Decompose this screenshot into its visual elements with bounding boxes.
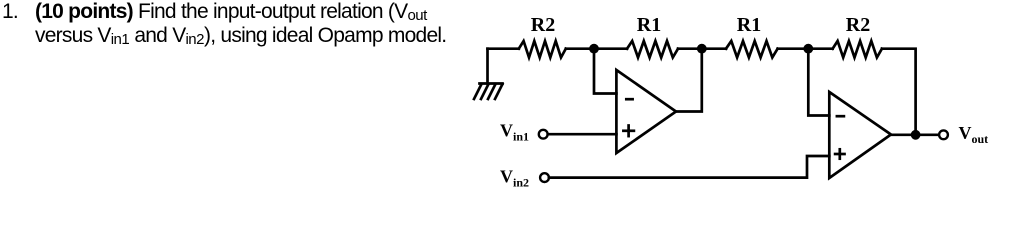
terminal Vin2 [540,173,549,182]
wire R1 to R1, through node B [678,47,726,50]
terminal Vout [939,130,948,139]
wire node C down to op-amp U2 inverting input [808,49,829,116]
op-amp U2 [829,92,891,178]
wire Vin1 to U1 non-inverting input [548,133,617,136]
wire R2 to R1, through node A [566,47,627,50]
wire ground corner to R2 left lead [488,47,519,50]
resistor R2 (left) [519,41,566,58]
svg-text:R1: R1 [737,14,761,36]
node A junction dot [589,44,599,54]
node D output junction dot [911,130,921,140]
svg-text:R1: R1 [637,14,661,36]
problem statement text [0,1,560,49]
op-amp U1 [616,70,676,153]
resistor R2 (right) [833,41,882,58]
svg-text:Vin1: Vin1 [500,120,529,143]
wire R1 to R2, through node C [778,47,833,50]
resistor R1 (first) [627,41,678,58]
svg-text:Vout: Vout [959,123,989,146]
wire Vin2 to U2 non-inverting input (stepped) [549,156,829,178]
wire node A down to op-amp U1 inverting input [594,49,616,94]
node B junction dot [697,44,707,54]
resistor R1 (second) [726,41,778,58]
node C junction dot [803,44,813,54]
wire U1 output up to node B [676,49,702,112]
wire U2 output to terminal [891,133,938,136]
svg-text:R2: R2 [846,14,870,36]
svg-text:R2: R2 [531,14,555,36]
wire R2 right lead to top-right corner, down to output node [882,49,916,135]
ground [474,49,503,99]
svg-text:Vin2: Vin2 [500,167,529,190]
terminal Vin1 [539,130,548,139]
